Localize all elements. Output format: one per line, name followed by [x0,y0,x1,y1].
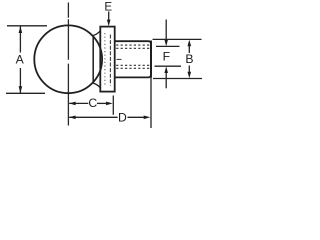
svg-text:C: C [88,96,97,110]
dim B bottom extension line [153,78,202,80]
dim E arrow down [107,20,111,27]
svg-text:A: A [16,53,25,67]
fillet bottom neck to shoulder [93,83,100,88]
dim B line lower segment [188,66,190,73]
dim F top extension line [156,45,180,47]
neck junction edge line [92,35,94,83]
dim A arrow down [19,86,23,93]
dim B arrow down [188,72,192,79]
dim D arrow left [69,116,76,120]
dim F arrow up [164,66,168,73]
dim A bottom extension line [6,92,45,94]
thread hidden line bottom inner [116,64,149,66]
svg-text:E: E [104,0,112,13]
shank body outline [115,41,151,77]
ball (sphere dia A) [34,25,102,93]
flange hidden line 1 [104,33,106,86]
dim C right extension line [112,96,114,115]
fillet top neck to shoulder [93,31,100,36]
dim F top arrow shaft [165,20,167,41]
dim F bottom arrow shaft [165,72,167,88]
dim A line lower segment [19,68,21,93]
thread hidden line top outer [116,44,149,46]
svg-text:D: D [118,110,127,124]
vertical centerline through ball center [67,3,69,126]
dim C arrow right [106,102,113,106]
dim C line right segment [97,102,107,104]
svg-text:B: B [185,52,193,66]
flange hidden line 2 [109,35,111,86]
thread hidden line top inner [116,47,149,49]
thread hidden line bottom outer [116,67,149,69]
shank end face extension for D [150,78,152,128]
svg-text:F: F [163,49,170,63]
dim B arrow up [188,40,192,47]
dim A arrow up [19,26,23,33]
dim D line right segment [128,116,145,118]
dim F arrow down [164,40,168,47]
dim F bottom extension line [155,65,182,67]
dim C arrow left [69,102,76,106]
dim C line left segment [69,102,88,104]
dim A line upper segment [19,27,21,53]
dim D line left segment [69,116,117,118]
shank end face [150,41,152,78]
dim E leader shaft [108,12,110,21]
dim D arrow right [144,116,151,120]
dim B top extension line [153,38,202,40]
dim B line upper segment [188,45,190,54]
dim A top extension line [7,25,47,27]
short axis dash in body [117,58,122,60]
shoulder flange rectangle [100,27,114,92]
